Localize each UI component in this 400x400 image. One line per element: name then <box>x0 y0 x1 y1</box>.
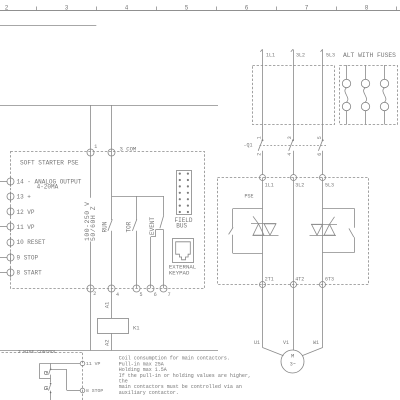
terminal 3L2 <box>291 175 305 189</box>
thyristor pair V2 <box>310 217 338 236</box>
svg-text:50/60H Z: 50/60H Z <box>90 206 97 241</box>
svg-text:1L1: 1L1 <box>265 182 274 188</box>
alt direct dashed box <box>253 66 335 125</box>
wire motor W1 <box>302 284 323 356</box>
svg-text:A1: A1 <box>103 301 110 308</box>
svg-text:1: 1 <box>94 144 97 150</box>
wire mains L1 <box>262 50 264 141</box>
svg-text:3L2: 3L2 <box>296 53 305 59</box>
contact RUN <box>102 219 113 288</box>
svg-text:10 RESET: 10 RESET <box>17 239 46 246</box>
fuse F2 <box>361 65 369 125</box>
bypass contact phase3 <box>323 209 355 253</box>
wire TOR drop <box>136 196 138 220</box>
coil K1 <box>98 319 141 334</box>
terminal 8 <box>0 267 42 277</box>
svg-text:-Q1: -Q1 <box>244 143 253 149</box>
contactor linkage <box>260 145 327 147</box>
svg-text:auxiliary contactor.: auxiliary contactor. <box>119 390 179 396</box>
label PSE <box>245 193 254 199</box>
PSE power dashed box <box>218 178 369 285</box>
node 5L3 <box>321 49 336 58</box>
contact TOR <box>126 219 137 288</box>
svg-text:6: 6 <box>154 292 157 298</box>
svg-text:RUN: RUN <box>102 221 109 232</box>
terminal 11 <box>0 222 35 232</box>
svg-text:3 WIRE CONTROL: 3 WIRE CONTROL <box>18 349 57 355</box>
bypass contact phase1 <box>229 209 263 254</box>
svg-text:M: M <box>291 353 294 360</box>
terminal 6 <box>147 285 157 298</box>
terminal 4 <box>108 285 119 298</box>
svg-text:5: 5 <box>185 4 189 11</box>
wire to terminal 8 <box>50 369 80 391</box>
terminal 8 STOP control <box>80 388 103 394</box>
external keypad connector <box>169 239 197 277</box>
svg-text:3~: 3~ <box>290 362 296 368</box>
svg-text:5L3: 5L3 <box>326 53 335 59</box>
svg-text:1L1: 1L1 <box>266 53 275 59</box>
wire control top <box>40 363 81 365</box>
node 1L1 <box>260 49 275 58</box>
ruler numbers <box>5 4 369 11</box>
contactor pole 3 <box>317 136 324 175</box>
wire supply horizontal <box>0 105 218 107</box>
svg-text:7: 7 <box>168 292 171 298</box>
svg-text:K1: K1 <box>133 325 140 332</box>
terminal 11 VP control <box>80 361 100 367</box>
svg-text:1: 1 <box>257 136 263 139</box>
terminal 14 <box>0 176 82 190</box>
wire coil down <box>111 333 113 350</box>
motor M1 <box>281 350 304 373</box>
svg-text:U1: U1 <box>254 340 260 346</box>
terminal 9 <box>0 252 39 262</box>
svg-text:EVENT: EVENT <box>149 217 156 235</box>
wire phase3 in box <box>322 178 324 284</box>
svg-text:5: 5 <box>317 136 323 139</box>
ruler line <box>0 10 400 12</box>
wire mains L3 <box>322 50 324 141</box>
terminal 2T1 <box>260 277 274 288</box>
terminal 5L3 <box>320 175 335 189</box>
svg-text:2: 2 <box>257 153 263 156</box>
svg-text:2: 2 <box>5 4 9 11</box>
svg-text:5L3: 5L3 <box>325 182 334 188</box>
wire motor V1 <box>283 284 294 350</box>
contactor pole 1 <box>257 136 264 175</box>
svg-text:6: 6 <box>317 153 323 156</box>
svg-text:2T1: 2T1 <box>265 277 274 283</box>
wire control left rail <box>40 363 51 379</box>
value label 100-250 V <box>84 202 91 241</box>
wire motor U1 <box>254 284 284 356</box>
node 3L2 <box>291 49 305 58</box>
fuse F1 <box>342 65 350 125</box>
svg-text:8: 8 <box>365 4 369 11</box>
svg-text:If the pull-in or holding valu: If the pull-in or holding values are hig… <box>119 373 251 379</box>
svg-text:A2: A2 <box>103 339 110 346</box>
wire terminal1 to terminal2 <box>90 242 92 289</box>
wire terminal4 to coil <box>111 288 113 318</box>
svg-text:11 VP: 11 VP <box>17 224 35 231</box>
wire COM branch vertical <box>111 196 113 220</box>
svg-text:W1: W1 <box>313 340 319 346</box>
svg-text:4: 4 <box>125 4 129 11</box>
label A1 <box>103 301 110 308</box>
fuse F3 <box>380 65 388 125</box>
svg-text:KEYPAD: KEYPAD <box>169 269 190 276</box>
svg-text:4T2: 4T2 <box>295 277 304 283</box>
svg-text:PSE: PSE <box>245 193 254 199</box>
ruler ticks <box>37 7 397 11</box>
svg-text:12 VP: 12 VP <box>17 209 35 216</box>
terminal 1 <box>87 144 97 156</box>
terminal 1L1 <box>260 175 274 189</box>
svg-text:3L2: 3L2 <box>295 182 304 188</box>
label SOFT STARTER PSE <box>20 159 79 166</box>
soft starter dashed box <box>11 152 205 289</box>
svg-text:13 +: 13 + <box>17 194 32 201</box>
contact EVENT <box>149 215 164 288</box>
wire long bottom <box>0 350 218 352</box>
terminal 6T3 <box>320 277 335 288</box>
label A2 <box>103 339 110 346</box>
label ALT WITH FUSES <box>343 52 396 59</box>
svg-text:7: 7 <box>305 4 309 11</box>
wire terminal2 down <box>90 288 92 350</box>
title underline <box>0 25 96 27</box>
svg-text:5: 5 <box>140 292 143 298</box>
wire phase2 in box <box>293 178 295 284</box>
svg-text:4: 4 <box>116 292 119 298</box>
svg-text:ALT WITH FUSES: ALT WITH FUSES <box>343 52 396 59</box>
wire mains L2 <box>293 50 295 141</box>
contactor Q1 label <box>244 143 253 149</box>
svg-text:6T3: 6T3 <box>325 277 334 283</box>
pushbutton stop <box>45 383 52 400</box>
note text <box>119 356 251 396</box>
terminal 4T2 <box>291 277 305 288</box>
contactor pole 2 <box>287 136 294 175</box>
fieldbus connector <box>175 171 193 230</box>
terminal 12 <box>7 207 35 217</box>
svg-text:3 COM: 3 COM <box>120 146 137 153</box>
svg-text:3: 3 <box>65 4 69 11</box>
svg-text:6: 6 <box>245 4 249 11</box>
thyristor pair V1 <box>251 216 279 235</box>
svg-text:BUS: BUS <box>176 223 187 230</box>
wire phase1 in box <box>262 178 264 284</box>
value label 50/60HZ <box>90 206 97 241</box>
wire supply drop N <box>111 105 113 196</box>
svg-text:TOR: TOR <box>126 221 133 232</box>
terminal 3 COM <box>108 146 136 156</box>
svg-text:8 START: 8 START <box>17 270 43 277</box>
svg-text:4: 4 <box>287 153 293 156</box>
svg-text:2: 2 <box>93 291 96 297</box>
svg-text:8 STOP: 8 STOP <box>86 388 103 394</box>
svg-text:3: 3 <box>287 136 293 139</box>
terminal 13 <box>7 192 31 202</box>
svg-text:11 VP: 11 VP <box>86 361 101 367</box>
wire supply drop L <box>90 105 92 198</box>
alt fuses dashed box <box>340 66 398 125</box>
svg-text:4-20MA: 4-20MA <box>37 184 59 191</box>
wire EVENT drop <box>163 196 165 215</box>
terminal 5 <box>133 285 143 298</box>
pushbutton start <box>45 363 51 382</box>
svg-text:9 STOP: 9 STOP <box>17 254 39 261</box>
terminal 7 <box>160 285 171 298</box>
svg-text:V1: V1 <box>283 340 289 346</box>
svg-text:SOFT STARTER PSE: SOFT STARTER PSE <box>20 159 79 166</box>
terminal 10 <box>7 237 46 247</box>
wire COM branch horizontal <box>112 196 164 198</box>
terminal 2 <box>87 285 96 297</box>
3 wire control box <box>2 349 83 400</box>
